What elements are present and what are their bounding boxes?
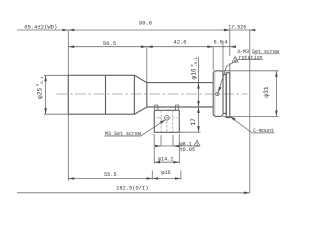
phi16 ext stubs [152,171,181,180]
svg-text:182.5(O/I): 182.5(O/I) [116,186,148,192]
phi8.1 ext stubs [161,135,173,146]
text phi25 rotated [36,76,45,99]
17.526 outside arrows [224,29,255,31]
dim 6.5 / 4 line [213,46,236,48]
ext line ring1 x213.2 [212,47,214,71]
3-M3 set screw underline [253,53,280,55]
svg-text:-0.1: -0.1 [41,76,45,86]
camera face line [249,30,251,193]
svg-text:17: 17 [190,118,197,126]
set screw circle M3 [165,116,170,121]
hidden hole lines [161,110,173,132]
centerline optical axis [57,93,248,95]
dim phi31 [275,71,277,117]
svg-text:50.5: 50.5 [103,40,116,47]
taper cone [134,75,146,114]
dim phi16 bottom [152,178,181,180]
svg-text:55.5: 55.5 [104,172,117,178]
svg-text:99.6: 99.6 [139,20,152,27]
tube φ16 top [147,82,213,84]
svg-text:-0.1: -0.1 [195,56,199,66]
4 right outside arrow [230,45,236,48]
leader 3-M3 rotation [218,59,238,91]
leader C-mount [231,117,252,133]
hidden hole center vertical [166,121,168,132]
svg-text:φ14.2: φ14.2 [158,156,174,162]
dim 182.5 O/I [17,192,250,194]
svg-text:4: 4 [224,39,227,45]
clamp collar cap right [176,105,179,110]
ext line front x68.3 [67,30,69,181]
svg-text:C-mount: C-mount [253,128,274,134]
svg-text:0: 0 [191,64,195,67]
dim 17 vertical [198,107,200,132]
svg-text:rotation: rotation [239,55,263,61]
dim phi14.2 [154,161,179,163]
dim 55.5 [68,178,152,180]
svg-text:65.4±2(WD): 65.4±2(WD) [24,24,57,31]
svg-text:0: 0 [37,83,41,86]
ext bar x223 [222,41,224,75]
M3 label underline [105,135,141,137]
triangle note 2 [232,56,238,62]
collar/block top line [154,109,179,111]
ext line block bottom y132.2 [179,131,200,133]
svg-text:M3 Set screw: M3 Set screw [105,131,141,137]
svg-text:φ16: φ16 [190,68,197,79]
svg-text:1: 1 [196,144,199,148]
taper end edge [146,83,148,107]
dim phi25 [45,75,47,114]
set screw center dot [166,117,167,118]
text phi16 rotated [190,56,199,79]
tube φ16 bottom [147,106,213,108]
screw hole axis centerline [157,117,177,119]
ring1 set screw circle [216,92,219,95]
dim phi8.1 [155,145,200,147]
phi25 ext lines [44,75,68,114]
C-mount underline [252,132,274,134]
ring1 screw dot [217,93,218,94]
ext line taper end x146.8 [146,47,148,82]
ext line flange face x229.8 [229,30,231,72]
ring1 set-screw ring [213,71,223,117]
dim 99.6 line [68,29,230,31]
svg-text:42.6: 42.6 [173,38,186,45]
rotation underline [238,58,262,60]
svg-text:±0.05: ±0.05 [180,147,196,153]
svg-text:φ25: φ25 [36,88,43,99]
clamp block body [154,110,179,132]
svg-text:17.526: 17.526 [228,24,246,30]
barrel φ25 body [68,75,134,114]
barrel segment line [105,75,107,114]
dim 65.4 WD line [17,29,68,31]
dim 50.5 [68,46,147,48]
ring2 [223,75,226,114]
phi31 ext bottom [223,115,278,117]
flange disc [226,73,230,118]
dim 17.526 line [224,29,254,31]
phi14.2 ext lines [154,134,179,164]
svg-text:φ31: φ31 [263,86,270,97]
ring1 chamfer inner line [214,71,216,116]
dim 42.6 [147,46,213,48]
phi31 ext top [223,70,278,72]
leader M3 set screw [105,120,165,136]
triangle note 1 [194,140,200,146]
svg-text:6.5: 6.5 [214,39,223,45]
clamp collar cap left [155,105,158,110]
svg-text:φ16: φ16 [161,170,170,176]
dim phi16 vertical [198,57,200,107]
